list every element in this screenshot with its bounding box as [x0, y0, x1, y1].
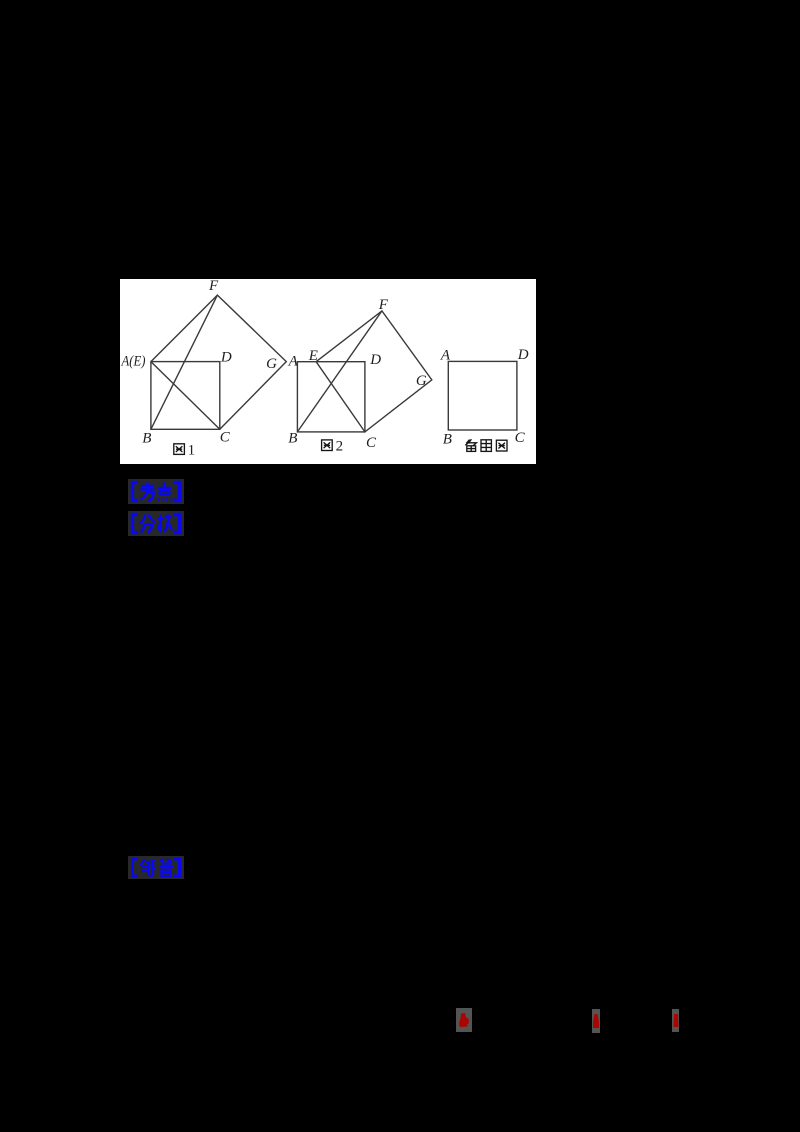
svg-text:F: F — [378, 297, 389, 313]
svg-text:C: C — [515, 430, 526, 446]
svg-text:D: D — [220, 349, 232, 365]
svg-text:C: C — [220, 429, 231, 445]
svg-text:B: B — [443, 432, 452, 448]
svg-text:1: 1 — [188, 443, 196, 459]
svg-text:C: C — [366, 435, 377, 451]
svg-text:E: E — [308, 348, 318, 364]
svg-text:A(E): A(E) — [121, 354, 146, 370]
svg-text:B: B — [142, 430, 151, 446]
svg-text:A: A — [440, 347, 451, 363]
svg-text:F: F — [208, 279, 219, 294]
svg-text:G: G — [266, 356, 277, 372]
svg-text:2: 2 — [336, 439, 344, 455]
svg-text:G: G — [416, 373, 427, 389]
svg-text:B: B — [288, 431, 297, 447]
svg-text:D: D — [517, 347, 529, 363]
svg-text:D: D — [369, 352, 381, 368]
svg-text:A: A — [288, 353, 299, 369]
